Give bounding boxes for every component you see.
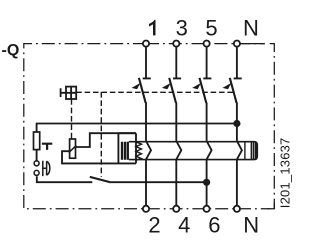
trip coil diagonal bbox=[69, 145, 77, 152]
linkage arrow pole 2 bbox=[162, 83, 171, 89]
trip coil bbox=[70, 139, 76, 158]
linkage arrow pole 3 bbox=[192, 83, 201, 89]
svg-text:6: 6 bbox=[208, 213, 220, 238]
test resistor bbox=[34, 132, 40, 150]
winding zigzag bbox=[136, 142, 142, 160]
terminal N top bbox=[234, 41, 240, 47]
CT core capsule bbox=[129, 142, 257, 160]
supply wire to N bbox=[37, 124, 237, 133]
svg-text:N: N bbox=[243, 16, 259, 41]
pole N wires with switch blade and CT chevron bbox=[230, 48, 242, 206]
coil lead top to CT bbox=[76, 133, 137, 147]
terminal N bottom bbox=[234, 206, 240, 212]
linkage dashed vertical handle to coil bbox=[71, 99, 73, 139]
svg-text:5: 5 bbox=[205, 16, 217, 41]
svg-text:I201_13637: I201_13637 bbox=[277, 138, 292, 209]
terminal 2 bbox=[143, 206, 149, 212]
pole 1 wires with switch blade and CT chevron bbox=[139, 48, 151, 206]
test button contact wire top bbox=[36, 150, 38, 161]
linkage arrow pole 1 bbox=[132, 83, 141, 89]
linkage arrow pole N bbox=[223, 83, 232, 89]
secondary winding box bbox=[118, 133, 136, 163]
terminal 3 bbox=[173, 41, 179, 47]
linkage dashed vertical to latch bbox=[100, 92, 102, 177]
pole 3 wires with switch blade and CT chevron bbox=[200, 48, 212, 206]
left core block stripes bbox=[122, 142, 128, 160]
border solid segment N to corner bbox=[240, 43, 264, 45]
terminal 1 bbox=[143, 41, 149, 47]
enclosure border dash-dot -Q box bbox=[24, 44, 270, 209]
test button contact circle bottom bbox=[34, 170, 39, 175]
test button actuator bbox=[43, 161, 50, 176]
terminal 4 bbox=[173, 206, 179, 212]
border bottom-right corner wrap bbox=[268, 203, 275, 209]
coil lead bottom to CT bbox=[62, 151, 136, 163]
pole 2 wires with switch blade and CT chevron bbox=[169, 48, 181, 206]
right core block stripes bbox=[251, 142, 255, 160]
label 1 bbox=[149, 20, 156, 36]
terminal 6 bbox=[204, 206, 210, 212]
svg-text:3: 3 bbox=[176, 16, 188, 41]
svg-text:N: N bbox=[243, 213, 259, 238]
label T bbox=[42, 144, 52, 150]
svg-text:2: 2 bbox=[148, 213, 160, 238]
terminal 5 bbox=[204, 41, 210, 47]
svg-text:-Q: -Q bbox=[2, 42, 20, 59]
junction dot on pole 6 bbox=[203, 179, 210, 186]
right core block bbox=[244, 142, 246, 160]
junction dot on N bbox=[233, 120, 240, 127]
test button contact circle top bbox=[34, 161, 39, 166]
latch switch blade bbox=[90, 177, 111, 183]
mechanical linkage dashed horizontal bbox=[76, 91, 233, 93]
test wire lower bbox=[37, 176, 207, 182]
manual handle symbol bbox=[61, 87, 77, 99]
svg-text:4: 4 bbox=[178, 213, 190, 238]
